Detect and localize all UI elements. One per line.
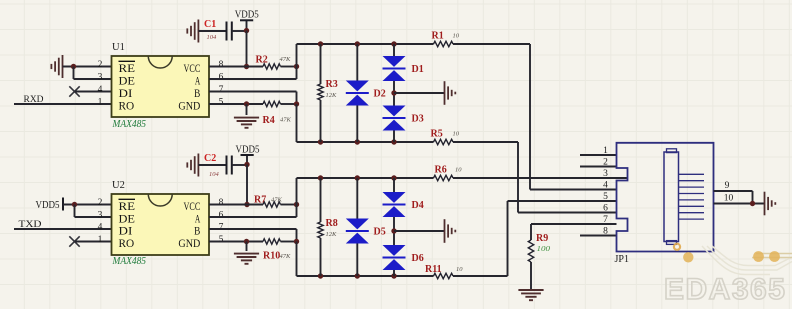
svg-text:VDD5: VDD5 (235, 10, 259, 21)
wire R10 to node B2 (281, 241, 297, 243)
svg-text:RO: RO (119, 236, 135, 250)
watermark pad 1 (683, 252, 693, 262)
wire R5 to corner (453, 141, 518, 143)
svg-text:R3: R3 (326, 79, 338, 90)
power symbol VDD5 (lower) (246, 155, 248, 165)
svg-text:104: 104 (207, 34, 218, 41)
wire pin 9 down to pin 10 (752, 191, 754, 204)
svg-text:4: 4 (603, 181, 608, 191)
svg-text:U1: U1 (112, 42, 125, 53)
wire U1 pin 7 (B) (209, 91, 297, 93)
overline for RE pin of U1 (119, 60, 136, 62)
svg-text:R6: R6 (435, 165, 447, 176)
JP1 contact rung 5 (679, 199, 705, 201)
junction on lower bottom rail x=320.5 (318, 273, 323, 278)
svg-text:R11: R11 (425, 264, 442, 275)
ground symbol right of D1/D3 (444, 81, 446, 105)
wire top rail A (upper network) (297, 43, 434, 45)
JP1 contact rung 1 (679, 173, 705, 175)
wire to JP1 pin 5 (508, 200, 617, 202)
wire ground to C1 (198, 30, 226, 32)
watermark pcb traces (702, 246, 792, 275)
svg-text:8: 8 (219, 60, 224, 70)
svg-text:R2: R2 (256, 55, 268, 66)
wire U2 pin 8 (VCC) to R7 (209, 204, 263, 206)
wire R6 to JP1 pin 3 (453, 177, 628, 179)
svg-text:4: 4 (98, 222, 103, 232)
JP1 jack top tab (667, 149, 677, 153)
JP1 contact rung 7 (679, 212, 705, 214)
wire U1 pin 6 (A) (209, 78, 297, 80)
wire down to ground (246, 104, 248, 115)
no-connect X on U1 pin 4 (DI) (69, 86, 79, 96)
JP1 contact rung 3 (679, 186, 705, 188)
wire RXD to U1 pin 1 (RO) (14, 103, 112, 105)
wire U2 pin 7 (B) (209, 228, 297, 230)
svg-text:7: 7 (219, 85, 224, 95)
resistor R2 (263, 64, 281, 69)
svg-text:8: 8 (603, 227, 608, 237)
junction U2 GND (244, 239, 249, 244)
capacitor C2 (226, 156, 228, 175)
JP1 inner jack rectangle (664, 152, 679, 242)
diode D2 (bidirectional TVS) (356, 44, 358, 81)
junction on upper A rail x=394 (391, 41, 396, 46)
watermark pad 3 (769, 251, 780, 262)
wire hook down to U1 pin 6 row (296, 67, 298, 80)
svg-text:6: 6 (219, 72, 224, 82)
svg-text:MAX485: MAX485 (112, 256, 146, 267)
svg-text:9: 9 (725, 181, 730, 191)
svg-text:7: 7 (219, 222, 224, 232)
watermark pad ring (674, 244, 680, 250)
wire vertical down to JP1 pin 6 (517, 142, 519, 213)
junction at C2/VDD5 (244, 162, 249, 167)
wire VDD5 down to U2 VCC (246, 165, 248, 205)
svg-text:6: 6 (219, 210, 224, 220)
wire vertical down to JP1 pin 4 (529, 44, 531, 190)
svg-text:1: 1 (603, 146, 608, 156)
capacitor C1 (226, 22, 228, 41)
resistor R3 (vertical) (320, 44, 322, 84)
ground symbol below R9 (518, 289, 543, 291)
wire between D4 and D6 (393, 217, 395, 245)
svg-text:D4: D4 (412, 200, 424, 211)
ground symbol right of JP1 (764, 192, 766, 216)
wire JP1 pin 7 to R9 (531, 223, 617, 225)
svg-text:6: 6 (603, 204, 608, 214)
svg-text:47K: 47K (271, 197, 283, 204)
wire hook B down to R4 row (296, 92, 298, 105)
svg-text:1: 1 (98, 235, 103, 245)
wire midpoint to chassis ground (394, 230, 445, 232)
svg-text:7: 7 (603, 215, 608, 225)
overline for RE pin of U2 (119, 198, 136, 200)
svg-text:R7: R7 (254, 195, 266, 206)
svg-text:10: 10 (455, 167, 462, 174)
wire hook down to U2 pin 6 row (296, 205, 298, 218)
svg-text:JP1: JP1 (615, 254, 629, 265)
svg-text:3: 3 (98, 210, 103, 220)
resistor R10 (263, 239, 281, 244)
wire to JP1 pin 4 (530, 189, 617, 191)
junction R10 output (294, 239, 299, 244)
svg-text:5: 5 (219, 97, 224, 107)
svg-text:3: 3 (98, 72, 103, 82)
junction at C1/VDD5 (244, 28, 249, 33)
wire junction down to pin 3 row (73, 67, 75, 80)
svg-text:47K: 47K (280, 117, 292, 124)
wire JP1 pin 8 stub (580, 235, 617, 237)
resistor R1 (434, 41, 454, 46)
svg-text:RO: RO (119, 98, 135, 112)
svg-text:D2: D2 (374, 89, 386, 100)
junction on upper A rail x=357.3 (355, 41, 360, 46)
wire U2 pin 5 (GND) to R10 (209, 241, 263, 243)
wire to JP1 pin 6 (518, 212, 617, 214)
svg-text:2: 2 (98, 198, 103, 208)
svg-text:10: 10 (453, 131, 460, 138)
junction at U2 pin2/pin3 (72, 202, 77, 207)
resistor R6 (434, 175, 454, 180)
wire net-A2 vertical to rail (296, 178, 298, 205)
wire midpoint to chassis ground (394, 92, 445, 94)
resistor R8 (vertical) (320, 178, 322, 222)
wire U1 pin 5 (GND) to R4 (209, 103, 263, 105)
diode D1 (TVS upper) (393, 44, 395, 56)
diode D5 (bidirectional TVS) (356, 178, 358, 219)
svg-text:GND: GND (178, 98, 200, 112)
svg-text:8: 8 (219, 198, 224, 208)
svg-text:47K: 47K (280, 253, 292, 260)
svg-text:2: 2 (603, 158, 608, 168)
wire to U2 pin 3 (75, 216, 112, 218)
wire ground to C2 (198, 164, 226, 166)
svg-text:R1: R1 (432, 31, 444, 42)
ground symbol right of D4/D6 (444, 219, 446, 243)
wire net-B2 vertical to rail (296, 242, 298, 277)
wire JP1 pin 9 (714, 190, 753, 192)
svg-text:C1: C1 (204, 19, 216, 30)
junction node at U1 pin2/pin3 (71, 64, 76, 69)
ground symbol below U1 pin 5 (234, 117, 259, 119)
connector JP1 outline (RJ45 socket) (617, 143, 714, 252)
svg-text:5: 5 (603, 192, 608, 202)
JP1 contact rung 2 (679, 180, 705, 182)
junction R7 output (294, 202, 299, 207)
svg-text:R4: R4 (263, 115, 275, 126)
svg-text:C2: C2 (204, 153, 216, 164)
svg-text:VDD5: VDD5 (36, 200, 60, 211)
wire R2 to node A (281, 66, 297, 68)
wire net-A vertical to top rail (296, 44, 298, 67)
wire R7 to node A2 (281, 204, 297, 206)
junction R4 output (net B pulldown) (294, 101, 299, 106)
resistor R9 (vertical) (528, 240, 533, 262)
svg-text:MAX485: MAX485 (112, 119, 146, 130)
junction on upper B rail x=357.3 (355, 139, 360, 144)
op-amp U1 (MAX485 transceiver body) (112, 56, 210, 117)
junction on lower top rail x=357.3 (355, 175, 360, 180)
watermark trace to right pads (752, 254, 792, 258)
wire VDD5 down to U1 VCC (246, 31, 248, 67)
svg-text:D1: D1 (412, 64, 424, 75)
junction VDD5 at U2 pin 8 (244, 202, 249, 207)
wire C2 to VDD5 node (232, 164, 247, 166)
wire top rail (lower network) (297, 177, 434, 179)
wire C1 to VDD5 node (232, 30, 247, 32)
wire U2 pin 1 stub (75, 241, 112, 243)
wire R11 to corner (453, 275, 508, 277)
svg-text:D3: D3 (412, 114, 424, 125)
svg-text:1: 1 (98, 97, 103, 107)
junction on lower top rail x=394 (391, 175, 396, 180)
wire VDD5 to U2 pin 2 (63, 204, 112, 206)
wire bottom rail B (upper network) (297, 141, 434, 143)
svg-text:R10: R10 (263, 251, 280, 262)
svg-text:R5: R5 (431, 129, 443, 140)
wire ground to U1 pin 2 (63, 66, 112, 68)
junction on lower bottom rail x=394 (391, 273, 396, 278)
junction on lower bottom rail x=357.3 (355, 273, 360, 278)
wire between D1 and D3 (393, 81, 395, 106)
junction D1/D3 midpoint (391, 90, 396, 95)
svg-text:R9: R9 (536, 233, 548, 244)
diode D4 (TVS upper) (393, 178, 395, 192)
JP1 jack bottom tab (667, 241, 677, 245)
wire JP1 pin 1 stub (580, 154, 617, 156)
wire R9 to ground (530, 262, 532, 289)
svg-text:10: 10 (724, 194, 734, 204)
resistor R7 (263, 202, 281, 207)
svg-text:GND: GND (178, 236, 200, 250)
wire junction down to pin 3 row (74, 205, 76, 218)
junction pins 9/10 (750, 201, 755, 206)
wire to U1 pin 3 (74, 78, 112, 80)
junction D4/D6 midpoint (391, 228, 396, 233)
svg-text:R8: R8 (326, 218, 338, 229)
diode D6 (TVS lower) (383, 245, 406, 256)
wire hook B down to R10 row (296, 229, 298, 242)
svg-text:3: 3 (603, 169, 608, 179)
resistor R4 (263, 101, 281, 106)
resistor R11 (434, 273, 454, 278)
resistor R5 (434, 139, 454, 144)
junction on lower top rail x=320.5 (318, 175, 323, 180)
junction on upper A rail x=320.5 (318, 41, 323, 46)
svg-text:12K: 12K (326, 231, 338, 238)
ground symbol at U1 RE/DE (62, 55, 64, 78)
svg-text:D6: D6 (412, 253, 424, 264)
svg-text:100: 100 (537, 245, 551, 253)
no-connect X on U2 pin 1 (RO) (69, 236, 79, 246)
svg-text:VDD5: VDD5 (236, 145, 260, 156)
svg-text:2: 2 (98, 60, 103, 70)
junction R2 output (net A pullup) (294, 64, 299, 69)
svg-text:5: 5 (219, 235, 224, 245)
wire U1 pin 4 stub (75, 91, 112, 93)
svg-text:47K: 47K (280, 56, 292, 63)
JP1 contact rung 8 (679, 218, 705, 220)
wire R4 to node B (281, 103, 297, 105)
junction on upper B rail x=394 (391, 139, 396, 144)
wire U2 pin 6 (A) (209, 216, 297, 218)
svg-text:D5: D5 (374, 227, 386, 238)
svg-text:10: 10 (456, 266, 463, 273)
svg-text:12K: 12K (326, 92, 338, 99)
JP1 contact rung 6 (679, 205, 705, 207)
wire TXD to U2 pin 4 (DI) (14, 228, 112, 230)
svg-text:10: 10 (453, 33, 460, 40)
wire bottom rail (lower network) (297, 275, 434, 277)
svg-text:U2: U2 (112, 180, 125, 191)
ground symbol at C1 (197, 20, 199, 43)
wire R1 to corner (453, 43, 530, 45)
junction VDD5 at U1 pin 8 (244, 64, 249, 69)
diode D3 (TVS lower) (383, 106, 406, 117)
junction U1 GND (244, 101, 249, 106)
wire net-B vertical to bottom rail (296, 104, 298, 142)
power symbol VDD5 (upper) (246, 20, 248, 30)
wire U1 pin 8 (VCC) to R2 (209, 66, 263, 68)
watermark pad 2 (753, 251, 764, 262)
JP1 contact rung 4 (679, 193, 705, 195)
wire down to R9 (530, 224, 532, 240)
junction on upper B rail x=320.5 (318, 139, 323, 144)
ground symbol at C2 (197, 154, 199, 177)
wire vertical up to JP1 pin 5 (507, 201, 509, 276)
op-amp U2 (MAX485 transceiver body) (112, 194, 210, 255)
svg-text:EDA365: EDA365 (664, 273, 786, 306)
svg-text:104: 104 (209, 171, 220, 178)
ground symbol below U2 pin 5 (234, 253, 259, 255)
wire down to ground (246, 242, 248, 252)
svg-text:4: 4 (98, 85, 103, 95)
wire JP1 pin 2 stub (580, 166, 617, 168)
wire JP1 pin 10 (714, 203, 765, 205)
